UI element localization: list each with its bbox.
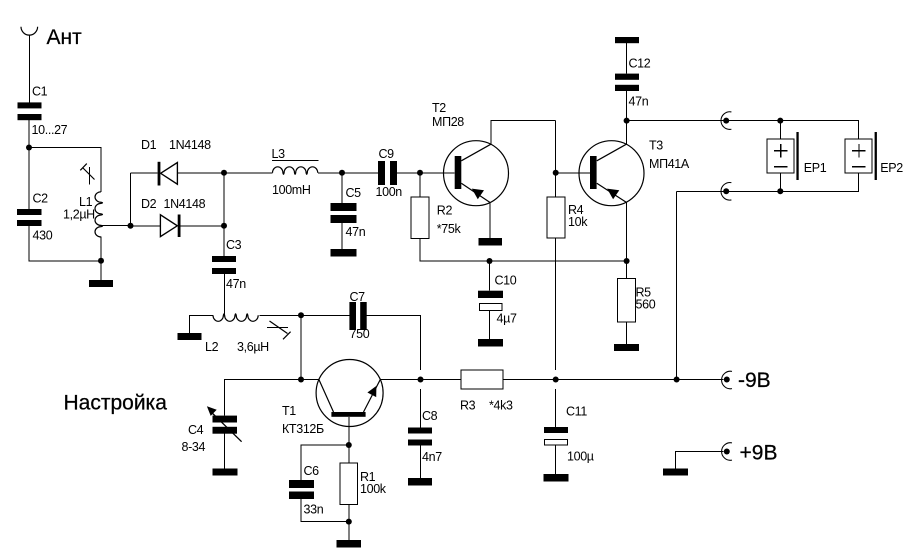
connector arc -9V	[722, 371, 732, 389]
wire C1 to node A	[28, 120, 30, 147]
svg-text:C9: C9	[379, 147, 395, 161]
capacitor C9 plates (series)	[378, 161, 385, 185]
wire C3 to L2 tap	[223, 274, 225, 315]
connector pin top output	[723, 118, 729, 124]
transistor T2 base bar	[455, 156, 462, 189]
wire T2 collector up and over	[491, 121, 556, 145]
wire C8 bottom to ground	[420, 446, 422, 479]
T3 emitter line	[597, 183, 626, 202]
wire R4 bottom to rail	[555, 238, 557, 370]
svg-text:C4: C4	[188, 423, 204, 437]
inductor L3 coil	[273, 167, 318, 175]
wire D2 left	[131, 225, 161, 227]
T1 collector line	[319, 380, 334, 413]
ground bar +9V	[663, 469, 688, 476]
svg-text:100n: 100n	[376, 185, 403, 199]
wire EP1 bottom	[779, 173, 781, 191]
wire earphone return down to rail	[676, 191, 678, 379]
svg-text:C5: C5	[346, 186, 362, 200]
wire D1 right to node	[177, 172, 224, 174]
diode D2 cathode bar	[178, 215, 181, 238]
svg-text:EP2: EP2	[880, 161, 903, 175]
wire C12 top bar to plates	[626, 43, 628, 73]
wire C10 bottom to ground	[489, 311, 491, 340]
resistor R4 box	[547, 197, 565, 238]
L1 adjust arrow	[80, 164, 94, 180]
svg-text:C2: C2	[33, 192, 49, 206]
svg-text:1N4148: 1N4148	[169, 138, 211, 152]
svg-text:Ант: Ант	[47, 26, 83, 49]
ground bar T2 emitter	[479, 238, 503, 246]
svg-text:4n7: 4n7	[422, 450, 442, 464]
connector pin -9V	[724, 377, 730, 383]
svg-text:C7: C7	[350, 290, 366, 304]
junction C7/C8/R3	[418, 377, 424, 383]
transistor T1 circle	[316, 360, 383, 427]
wire T3 emitter to lower rail node	[626, 202, 628, 261]
diode D2 triangle	[160, 215, 177, 237]
capacitor C10 lower plate (electrolytic box)	[480, 304, 503, 311]
capacitor C5 plates	[331, 203, 357, 211]
transistor T2 circle	[444, 141, 509, 206]
T1 emitter line	[364, 380, 381, 413]
svg-text:100k: 100k	[360, 482, 387, 496]
T2 collector line	[461, 144, 491, 161]
svg-text:4µ7: 4µ7	[497, 312, 517, 326]
wire node to C7	[301, 314, 349, 316]
junction C10	[487, 258, 493, 264]
svg-text:8-34: 8-34	[182, 440, 206, 454]
wire C4 bottom to ground	[224, 434, 226, 469]
wire C7 right to T1 emitter node	[367, 315, 421, 370]
wire T3 collector to top node	[626, 121, 628, 145]
junction T3 emitter/R5	[624, 258, 630, 264]
T3 collector line	[597, 144, 627, 161]
wire L2 node down to base rail	[300, 315, 302, 379]
wire D1 left vertical	[130, 173, 132, 226]
svg-text:3,6µH: 3,6µH	[237, 340, 269, 354]
capacitor C11 lower plate (electrolytic box)	[545, 440, 568, 446]
wire T1 base node left to C6	[301, 445, 349, 480]
wire T1 base down	[348, 417, 350, 445]
EP1 plus sign	[774, 144, 788, 157]
svg-text:10k: 10k	[568, 215, 588, 229]
svg-text:100mH: 100mH	[272, 183, 311, 197]
junction R1 bottom	[346, 519, 352, 525]
wire L1 bottom to ground node	[100, 236, 102, 260]
L2 adjustable core bar	[267, 327, 288, 329]
ground bar C5	[331, 249, 357, 257]
svg-text:C11: C11	[566, 405, 587, 419]
svg-text:100µ: 100µ	[567, 450, 594, 464]
svg-text:R3: R3	[460, 399, 476, 413]
main rail T1 right to -9V connector	[380, 379, 723, 381]
junction L2/C7	[298, 312, 304, 318]
wire C5 bottom to ground	[341, 223, 343, 249]
wire D1 left	[131, 172, 158, 174]
wire C10 node down	[489, 261, 491, 291]
wire C9 to R2 node	[397, 172, 420, 174]
resistor R3 box	[461, 370, 503, 389]
T1 emitter arrow (NPN)	[367, 386, 376, 397]
T3 emitter arrow (PNP)	[607, 189, 619, 200]
wire C11 bottom to ground	[555, 445, 557, 474]
connector pin bottom output	[723, 188, 729, 194]
junction C9/R2	[417, 170, 423, 176]
capacitor C7 plates (series)	[349, 302, 356, 330]
capacitor C8 plates	[408, 428, 432, 434]
EP1 minus sign	[774, 166, 788, 168]
svg-text:+9В: +9В	[740, 442, 778, 465]
svg-text:МП41А: МП41А	[649, 157, 690, 171]
ground bar R1	[337, 540, 362, 548]
junction rail L2	[298, 377, 304, 383]
capacitor C10 plate top	[478, 291, 503, 298]
capacitor C6 plates	[289, 480, 314, 488]
diode D1 triangle	[161, 163, 178, 185]
junction EP1 bottom	[777, 188, 783, 194]
svg-text:1N4148: 1N4148	[164, 197, 206, 211]
EP2 plus sign	[852, 144, 866, 157]
wire antenna to C1	[28, 35, 30, 102]
ground bar C10	[478, 339, 503, 347]
wire R4 node vertical	[555, 121, 557, 197]
svg-text:10...27: 10...27	[32, 123, 68, 137]
wire R1 node to ground	[348, 522, 350, 540]
diode D1 cathode bar	[158, 162, 161, 186]
capacitor C12 plates	[615, 74, 639, 80]
wire L3 to C5 node	[318, 172, 342, 174]
wire C12 to top node	[626, 91, 628, 121]
wire node A to L1 top	[29, 148, 101, 192]
wire R5 bottom to ground	[626, 322, 628, 344]
earphone EP2 box	[845, 139, 872, 173]
L2 adjust arrow	[270, 321, 291, 339]
ground bar C8	[408, 478, 432, 486]
wire EP1 top	[779, 121, 781, 139]
svg-text:L2: L2	[205, 340, 219, 354]
ground bar L2	[178, 333, 202, 340]
capacitor C3 plates	[212, 256, 236, 262]
svg-text:47n: 47n	[629, 94, 649, 108]
C4 variable arrow head	[207, 406, 217, 416]
ground bar L1/C2	[89, 280, 113, 287]
inductor L2 coil	[213, 314, 258, 322]
svg-text:C10: C10	[495, 273, 517, 287]
wire L1 tap to D junction	[101, 225, 131, 227]
svg-text:T3: T3	[649, 139, 663, 153]
L3 label underline	[272, 160, 319, 162]
svg-text:КТ312Б: КТ312Б	[282, 422, 324, 436]
wire node D1-D2 vertical to C3	[223, 173, 225, 256]
svg-text:Настройка: Настройка	[64, 392, 168, 415]
svg-text:750: 750	[350, 327, 370, 341]
wire L2 right to node	[260, 314, 301, 316]
ground bar R5	[614, 344, 639, 351]
svg-text:D1: D1	[141, 138, 157, 152]
svg-text:560: 560	[636, 298, 656, 312]
junction EP1 top	[777, 118, 783, 124]
capacitor C1 plates	[18, 102, 42, 108]
T2 emitter arrow (PNP)	[472, 189, 484, 200]
capacitor C11 plate top	[544, 427, 568, 433]
wire R2 bottom to lower rail	[420, 238, 627, 261]
resistor R5 box	[618, 279, 636, 323]
capacitor C2 plates	[17, 209, 42, 215]
top output rail to EP2	[627, 121, 859, 139]
L1 adjustable core bar	[88, 167, 90, 184]
wire R1 bottom	[348, 505, 350, 522]
wire top line D node to L3	[224, 172, 273, 174]
wire C6 bottom to R1 bottom node	[301, 499, 349, 522]
svg-text:33n: 33n	[304, 503, 324, 517]
transistor T1 base bar	[331, 412, 365, 417]
svg-text:EP1: EP1	[804, 161, 827, 175]
bottom earphone rail	[677, 173, 859, 191]
svg-text:L3: L3	[272, 147, 286, 161]
C4 variable arrow shaft	[211, 411, 242, 441]
ground bar C11	[544, 474, 569, 482]
wire C5 node to C9	[342, 172, 378, 174]
wire C8 node down	[420, 389, 422, 428]
wire C2 bottom to ground rail	[29, 226, 101, 261]
svg-text:-9В: -9В	[738, 369, 771, 392]
wire D2 right to node	[181, 225, 225, 227]
junction node A C1/C2	[26, 145, 32, 151]
connector arc out bottom	[721, 183, 731, 201]
svg-text:C1: C1	[32, 85, 48, 99]
junction R4/C11/rail	[553, 377, 559, 383]
wire L2 left to ground	[190, 315, 214, 333]
junction L1 ground	[98, 258, 104, 264]
EP1 diaphragm bar	[796, 132, 798, 180]
svg-text:C3: C3	[226, 238, 242, 252]
svg-text:T1: T1	[282, 404, 296, 418]
wire T2 emitter to ground	[489, 202, 491, 238]
svg-text:*75k: *75k	[437, 222, 462, 236]
transistor T3 circle	[579, 141, 644, 206]
svg-text:430: 430	[33, 229, 53, 243]
wire C11 node down	[555, 389, 557, 427]
wire R5 top	[626, 261, 628, 279]
wire node A to C2	[28, 148, 30, 210]
ground bar C12 top	[615, 37, 639, 43]
svg-text:1,2µH: 1,2µH	[63, 208, 95, 222]
transistor T3 base bar	[590, 156, 597, 189]
wire R2 top	[419, 173, 421, 197]
svg-text:D2: D2	[141, 197, 157, 211]
junction R4/T3 base	[553, 170, 559, 176]
EP2 diaphragm bar	[875, 132, 877, 180]
svg-text:C8: C8	[422, 409, 438, 423]
svg-text:47n: 47n	[346, 225, 366, 239]
wire +9V connector to ground	[676, 452, 724, 469]
junction D1 out	[221, 170, 227, 176]
svg-text:МП28: МП28	[432, 115, 464, 129]
svg-text:C6: C6	[304, 464, 320, 478]
wire R4 node to T3 base	[556, 172, 590, 174]
junction D2 out	[221, 223, 227, 229]
junction L3/C5	[339, 170, 345, 176]
wire L1 ground node down	[100, 261, 102, 280]
junction earphone return / rail	[674, 377, 680, 383]
connector arc out top	[721, 112, 731, 130]
connector pin +9V	[724, 449, 730, 455]
capacitor C4 plates (variable)	[213, 416, 238, 423]
wire R1 top	[348, 445, 350, 463]
T2 emitter line	[461, 183, 489, 202]
resistor R2 box	[411, 197, 429, 238]
svg-text:47n: 47n	[226, 277, 246, 291]
antenna symbol	[21, 27, 38, 35]
svg-text:T2: T2	[432, 101, 446, 115]
junction D1/D2 left	[128, 223, 134, 229]
wire C4 to rail and rail to T1	[225, 380, 319, 416]
ground bar C4	[213, 469, 238, 476]
inductor L1 coil	[95, 192, 103, 237]
connector arc +9V	[722, 443, 732, 461]
resistor R1 box	[340, 463, 358, 505]
wire R2 node to T2 base	[420, 172, 455, 174]
EP2 minus sign	[852, 166, 866, 168]
earphone EP1 box	[767, 139, 794, 173]
junction C12/T3 collector	[624, 118, 630, 124]
wire C5 down	[341, 173, 343, 203]
junction T1 base	[346, 442, 352, 448]
svg-text:*4k3: *4k3	[489, 399, 513, 413]
svg-text:C12: C12	[629, 56, 651, 70]
svg-text:R2: R2	[437, 204, 453, 218]
